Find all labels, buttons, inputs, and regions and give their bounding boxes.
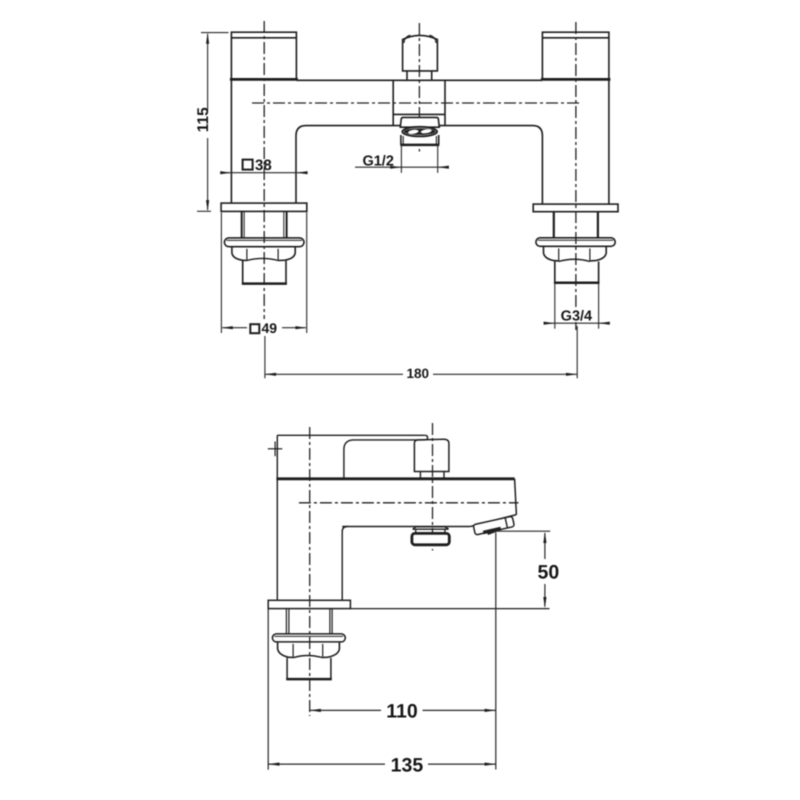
svg-text:135: 135 (391, 754, 424, 776)
svg-text:49: 49 (262, 320, 278, 336)
svg-text:G1/2: G1/2 (362, 153, 393, 169)
svg-text:180: 180 (407, 366, 430, 381)
svg-text:G3/4: G3/4 (561, 308, 592, 324)
svg-text:115: 115 (195, 107, 212, 132)
svg-text:38: 38 (255, 157, 272, 174)
svg-text:50: 50 (538, 562, 560, 584)
svg-text:110: 110 (386, 701, 418, 723)
